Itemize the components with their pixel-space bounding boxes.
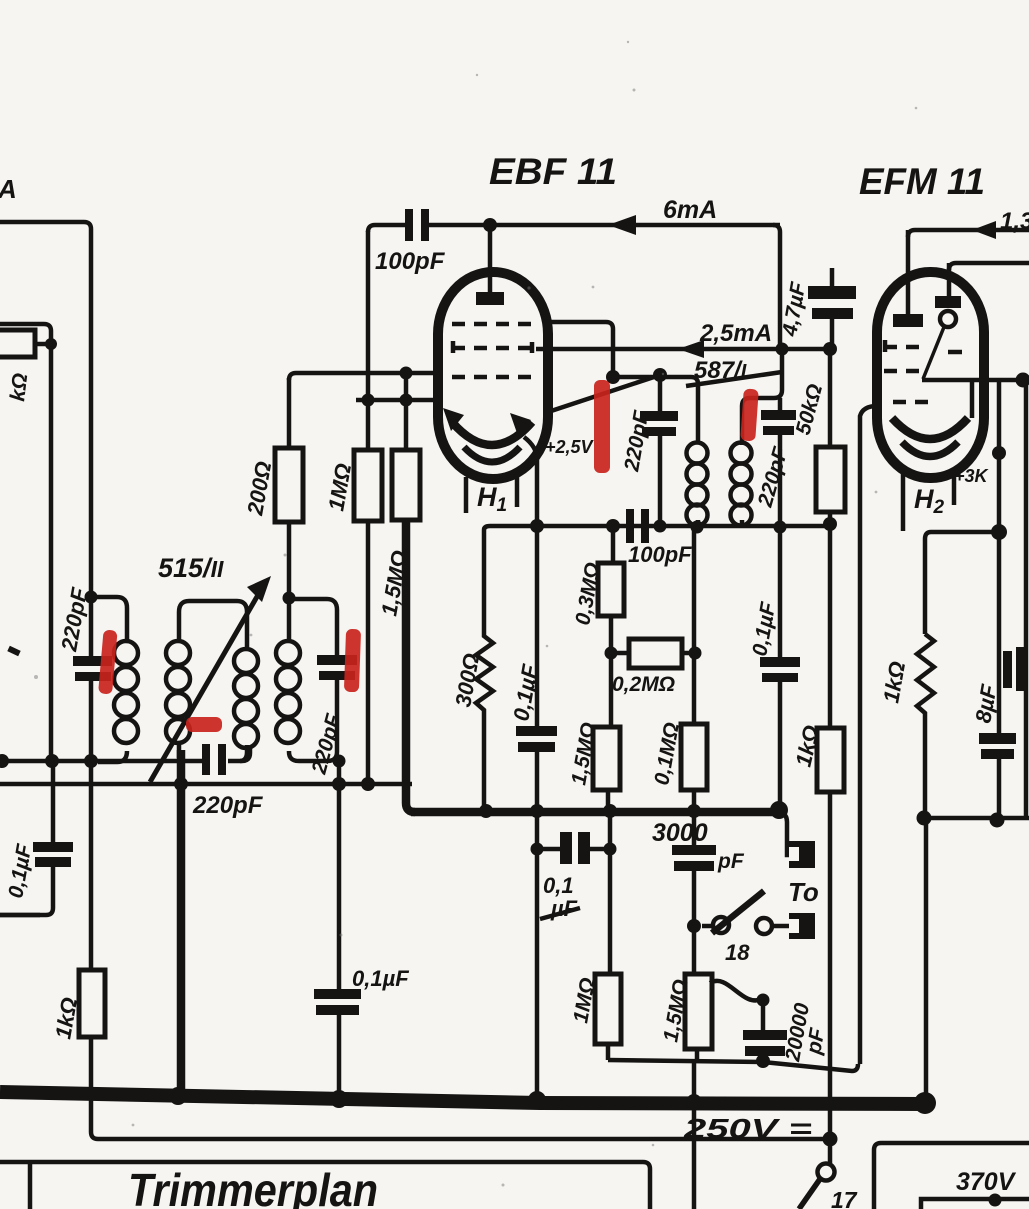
junction <box>45 338 57 350</box>
switch 17 lever <box>799 1179 820 1209</box>
svg-text:250V =: 250V = <box>683 1113 812 1144</box>
svg-text:220pF: 220pF <box>192 792 264 819</box>
wire heater rail right <box>924 816 1029 821</box>
svg-text:1,3: 1,3 <box>1000 208 1029 235</box>
red mark annotation left coil <box>98 630 118 695</box>
capacitor 220pF left plates <box>73 656 112 666</box>
thick cathode rail y812 <box>411 808 780 817</box>
capacitor 220pF IF secondary plates <box>761 410 796 420</box>
grid dashes row1 <box>884 345 928 350</box>
wire to jack <box>702 924 789 929</box>
junctions on y526 <box>530 519 544 533</box>
svg-text:0,1: 0,1 <box>543 873 574 898</box>
wire AVC divider x694 <box>692 527 697 724</box>
wire 0.2M leads <box>611 651 694 656</box>
junction anode node <box>606 370 620 384</box>
grid dashes row3 <box>893 400 928 405</box>
svg-text:A: A <box>0 174 17 204</box>
coil L2b bottom wire to 220pF <box>240 745 247 761</box>
variable coil L2a top bar <box>179 601 247 650</box>
capacitor 0.1uF AF plates <box>314 989 361 999</box>
red mark annotation <box>594 380 610 473</box>
pin EFM grid <box>947 263 952 298</box>
heater leg right <box>515 477 520 507</box>
wire 4.7uF stub and lead <box>830 268 835 349</box>
resistor 0.3M Ohm <box>598 563 624 616</box>
thick AVC/ground lead x181 <box>177 750 186 1097</box>
wire x537 down to bus <box>535 812 540 1097</box>
resistor 0.2M Ohm horizontal <box>629 639 682 668</box>
wire 0.1uF leads <box>535 526 540 812</box>
junction coil L1 top <box>85 591 98 604</box>
svg-text:515/II: 515/II <box>158 553 224 583</box>
magic eye pointer <box>923 327 944 379</box>
curly wire to 20000pF <box>710 981 762 1001</box>
wire 100pF to tube top and 6mA corner <box>429 223 780 228</box>
resistor 1kOhm zigzag EFM <box>917 634 934 818</box>
wire right edge vertical <box>1024 380 1029 818</box>
capacitor 220pF padder plates <box>202 744 210 775</box>
IF coil primary loops <box>687 443 708 526</box>
coil L1 loops <box>114 641 138 743</box>
resistor 1M Ohm AF <box>595 974 621 1044</box>
wire pentode anode right then down <box>543 322 613 377</box>
capacitor 0.1uF detector plates <box>760 657 800 667</box>
grid dashes row2 <box>884 369 928 374</box>
svg-text:2,5mA: 2,5mA <box>699 320 772 347</box>
resistor 200 Ohm <box>275 448 303 522</box>
cathode return wire y400 <box>356 398 443 403</box>
switch lever <box>712 891 764 933</box>
wire anode node to IF coil top <box>613 377 698 443</box>
AVC rail wire B y784 <box>0 782 412 787</box>
jack symbol lower <box>789 913 815 939</box>
pin EFM plate <box>906 230 911 316</box>
svg-text:To: To <box>788 877 819 907</box>
wire from A top frame <box>0 222 91 658</box>
wire 200 Ohm top to grid wire <box>289 373 443 380</box>
coil L3 loops <box>276 641 300 743</box>
wire x610 down to 1M <box>608 812 613 974</box>
heater leg left EFM <box>901 470 906 531</box>
junction right edge <box>1016 373 1029 388</box>
junctions on wire A <box>0 754 9 768</box>
capacitor 0.1uF AVC left plates <box>33 842 73 852</box>
wire 1.5M AF bottom through bus to output <box>694 1049 697 1209</box>
coil L2b loops <box>234 649 258 748</box>
magic eye pivot circle <box>940 311 956 327</box>
capacitor 0.1uF mid plates <box>516 726 557 736</box>
svg-text:kΩ: kΩ <box>6 372 32 403</box>
wire 220pF secondary leads <box>778 398 783 527</box>
capacitor 8uF plates <box>979 733 1016 744</box>
wire 0.3M leads <box>611 526 613 727</box>
edge artifact left <box>7 646 20 657</box>
svg-text:EBF 11: EBF 11 <box>489 151 617 192</box>
coil L2a wire into thick ground line <box>177 612 182 758</box>
box 370V inner <box>921 1199 1029 1209</box>
svg-text:EFM 11: EFM 11 <box>859 161 985 202</box>
coil L3 staple with cap branch <box>289 598 337 761</box>
stub L3 bottom to AVC rail <box>337 761 342 784</box>
heater leg left <box>464 477 469 513</box>
wire 1k AVC bottom corner <box>91 1037 98 1139</box>
arrow 6mA <box>608 215 636 235</box>
wire diode plate diagonal to node <box>545 376 657 413</box>
capacitor 100pF mid plates <box>626 509 634 543</box>
resistor 1kOhm plate feed <box>817 728 844 792</box>
grid dashes row2 with hooks <box>452 346 533 351</box>
switch contact circle right <box>756 918 772 934</box>
tube EBF11 envelope <box>438 272 548 479</box>
wire coupling cap leads <box>537 847 610 852</box>
tube EBF11 top cap pin <box>488 225 493 294</box>
svg-text:pF: pF <box>802 1025 829 1056</box>
jack symbol To <box>789 841 815 868</box>
svg-text:3000: 3000 <box>652 819 708 847</box>
grid dashes row3 <box>452 375 533 380</box>
resistor (kOhm, cut at left edge) <box>0 330 35 357</box>
resistor 1.5M Ohm upper <box>392 450 420 520</box>
wire anode EFM top with arrow 1.3 <box>908 230 1029 237</box>
wire 3000pF to switch <box>692 871 697 926</box>
svg-text:+2,5V: +2,5V <box>545 437 595 457</box>
svg-text:Trimmerplan: Trimmerplan <box>128 1164 378 1209</box>
junction L3 bottom <box>333 755 346 768</box>
AVC grid wire from EFM <box>860 406 877 1064</box>
wire IF secondary top from 2.5mA node <box>742 349 782 445</box>
switch contact circle left <box>713 917 729 933</box>
wire B+ feed down to bus end <box>924 818 929 1097</box>
resistor 1.5M Ohm lower <box>593 727 620 790</box>
capacitor 20000pF plates <box>743 1030 787 1040</box>
junction tube top <box>483 218 497 232</box>
capacitor 100pF top plates <box>405 209 413 241</box>
cathode arc small <box>464 447 520 462</box>
AF return wire to AVC line <box>608 1060 858 1071</box>
Trimmerplan box <box>0 1162 650 1209</box>
svg-text:17: 17 <box>831 1187 858 1209</box>
diode arrow right <box>510 413 531 436</box>
capacitor 220pF IF primary plates <box>640 411 678 421</box>
resistor 1M Ohm <box>354 450 382 521</box>
capacitor 220pF on L3 branch plates <box>317 655 357 665</box>
wire 100pF left corner down <box>368 225 405 232</box>
wire 6mA corner down to 2.5mA line <box>773 225 780 349</box>
junction L3 top <box>283 592 296 605</box>
coil L1 staple <box>91 597 127 762</box>
svg-text:pF: pF <box>717 850 745 873</box>
resistor 1kOhm AVC <box>79 970 105 1037</box>
capacitor 3000pF plates <box>672 845 716 855</box>
wire 1.5M top lead <box>404 373 409 450</box>
svg-text:100pF: 100pF <box>375 248 446 275</box>
wire 100pF branch down through 1M <box>366 231 371 784</box>
junction secondary top <box>776 343 789 356</box>
resistor 1.5M Ohm AF <box>685 974 712 1049</box>
IF coil secondary loops <box>731 443 752 526</box>
heater leg right EFM <box>952 474 957 505</box>
grid dash right <box>948 350 962 355</box>
resistor 300 Ohm zigzag <box>476 530 493 810</box>
wire target anode x999 <box>997 380 1002 734</box>
cathode arc small EFM <box>902 442 958 457</box>
cathode arc big <box>452 422 532 445</box>
svg-text:0,1µF: 0,1µF <box>352 966 409 991</box>
wire stub resistor to node <box>35 342 51 347</box>
capacitor 0.1uF coupling plates vertical <box>560 832 572 864</box>
capacitor right edge plates <box>1003 651 1012 688</box>
svg-text:6mA: 6mA <box>663 196 717 224</box>
ground bus thick <box>0 1092 926 1104</box>
wire cap leads x780 <box>778 527 783 810</box>
wire screen 2.5mA <box>536 347 830 352</box>
box 370V outer <box>874 1143 1029 1209</box>
wire 20000pF leads <box>761 1000 766 1062</box>
arrow 2.5mA <box>678 340 704 358</box>
thick cathode wire 1.5M down to rail <box>406 520 415 812</box>
switch 17 contact circle <box>818 1164 835 1181</box>
svg-text:370V: 370V <box>956 1168 1017 1196</box>
wire AVC long horizontal y1139 <box>98 1137 832 1142</box>
resistor 0.1M Ohm <box>681 724 707 790</box>
svg-text:18: 18 <box>725 940 750 965</box>
wire 1M bottom <box>606 1044 611 1060</box>
wire 8uF bottom <box>997 759 1002 821</box>
svg-text:100pF: 100pF <box>628 542 692 567</box>
red mark annotation horizontal <box>186 717 222 732</box>
bus junction dots <box>169 1087 187 1105</box>
tube EFM11 envelope <box>877 272 984 478</box>
wire 0.1M bottom lead <box>692 790 697 845</box>
red mark annotation <box>740 389 759 442</box>
svg-text:+3K: +3K <box>954 466 990 486</box>
wire switch to 1.5M AF <box>692 926 697 974</box>
IF coil primary bottom <box>696 520 701 527</box>
wire 50k chain down to switch 17 <box>828 792 833 1164</box>
wire 0.1uF AVC leads <box>0 761 53 915</box>
cathode arc big EFM <box>892 418 968 439</box>
resistor 50kOhm <box>816 447 845 512</box>
wire 1.5M bottom lead <box>606 790 611 813</box>
diode load wire y526 <box>484 526 830 530</box>
wire below cap <box>89 681 94 970</box>
IF coil secondary bottom <box>740 520 745 527</box>
wire grid EFM top <box>949 263 1029 270</box>
tuned circuit common wire A y761 <box>0 759 202 764</box>
switch 18 pivot junction <box>687 919 701 933</box>
wire cathode resistor top <box>925 532 999 634</box>
red mark annotation mid coil <box>344 629 361 692</box>
wire 200 Ohm leads <box>287 378 292 598</box>
junction dots on rail <box>479 804 493 818</box>
svg-text:0,2MΩ: 0,2MΩ <box>612 673 675 696</box>
wire 0.1uF AF leads <box>337 784 342 1098</box>
deflection wire inside tube <box>922 378 1029 383</box>
junction dots grid/cathode wires <box>362 394 375 407</box>
wire 50k leads <box>828 349 833 728</box>
tuning arrow 515/II <box>150 588 262 782</box>
diode arrow left <box>443 408 464 431</box>
junction 50k top <box>823 342 837 356</box>
wire from diode2 plate down <box>524 437 537 526</box>
coil L2a loops <box>166 641 190 743</box>
wire cap leads <box>658 375 663 527</box>
grid dashes row1 <box>452 322 533 327</box>
wire left frame second <box>0 324 51 761</box>
capacitor 4.7uF plates <box>808 286 856 299</box>
wire rail end to To jack <box>780 812 789 855</box>
